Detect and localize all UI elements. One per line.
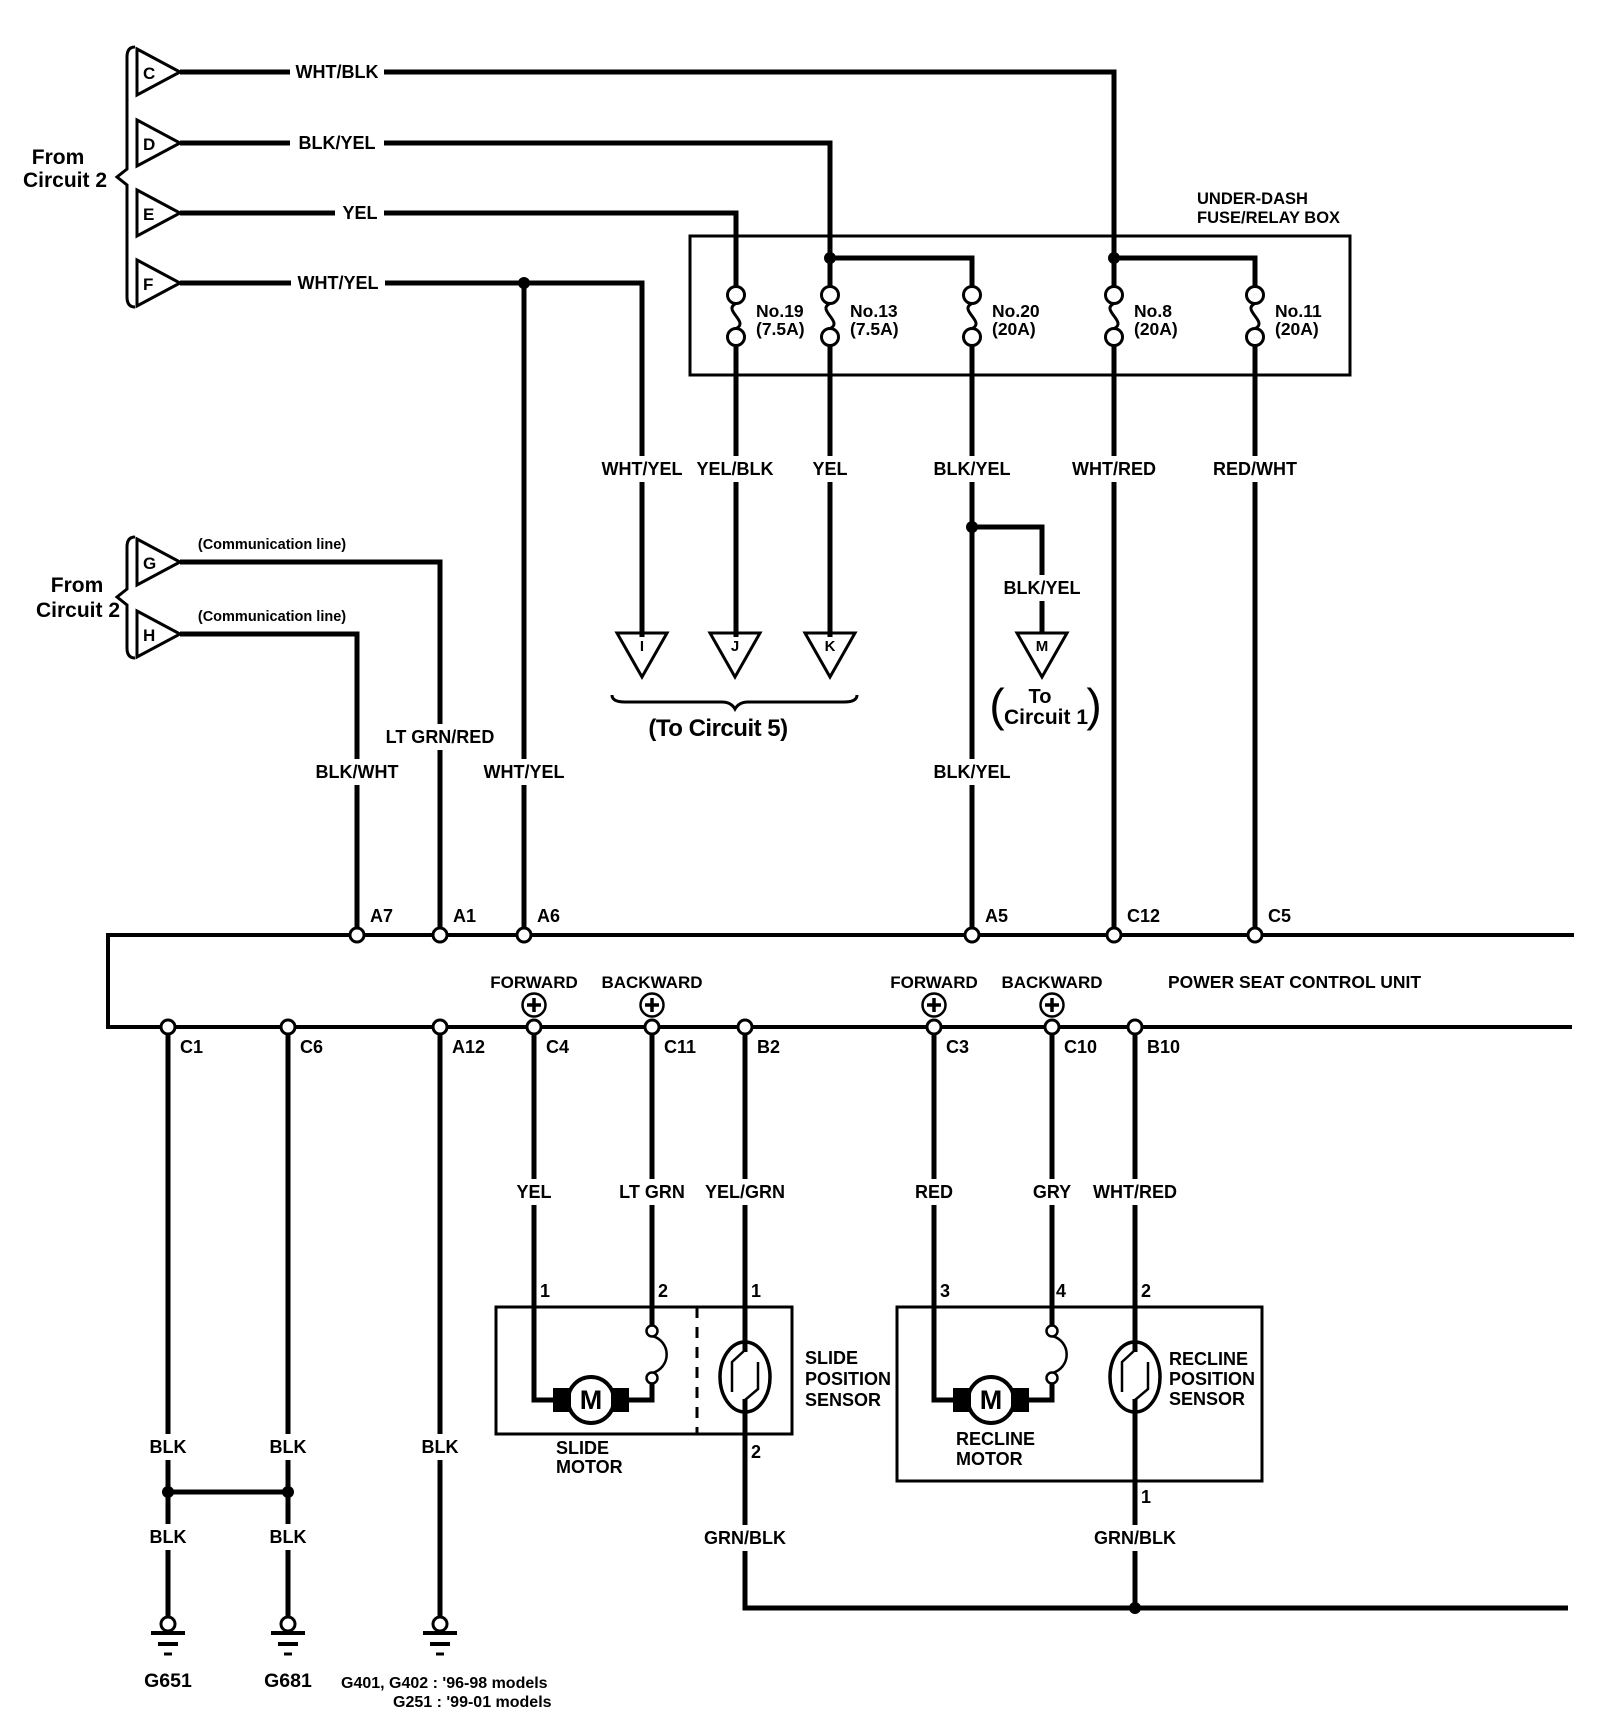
label BLK column C6 upper xyxy=(263,1434,312,1460)
svg-text:I: I xyxy=(640,638,644,655)
svg-text:C4: C4 xyxy=(546,1037,569,1057)
terminal A6 xyxy=(517,928,531,942)
svg-text:(20A): (20A) xyxy=(1134,319,1178,339)
svg-text:E: E xyxy=(143,205,154,224)
label YEL column K xyxy=(805,456,854,482)
svg-text:(7.5A): (7.5A) xyxy=(756,319,805,339)
wire WHT/BLK from C to fuse No.8 xyxy=(180,72,1114,287)
terminal C6 xyxy=(281,1020,295,1034)
label GRN/BLK slide sensor xyxy=(698,1525,792,1551)
fuse No.19 (7.5A) xyxy=(728,287,745,304)
svg-text:WHT/YEL: WHT/YEL xyxy=(484,762,565,782)
wire branch BLK/YEL to arrow M xyxy=(972,527,1042,634)
wire slide sensor GRN/BLK to bottom rail xyxy=(745,1399,1568,1608)
svg-text:1: 1 xyxy=(540,1281,550,1301)
svg-text:MOTOR: MOTOR xyxy=(556,1457,623,1477)
svg-text:BLK: BLK xyxy=(270,1437,307,1457)
svg-text:A7: A7 xyxy=(370,906,393,926)
label LT GRN/RED column A1 xyxy=(376,724,504,750)
svg-text:D: D xyxy=(143,135,155,154)
slide box dashed divider xyxy=(696,1307,699,1434)
wire slide motor to breaker xyxy=(629,1383,652,1400)
svg-text:BACKWARD: BACKWARD xyxy=(1001,973,1102,992)
svg-text:GRN/BLK: GRN/BLK xyxy=(704,1528,786,1548)
svg-text:BLK/YEL: BLK/YEL xyxy=(298,133,375,153)
svg-text:FORWARD: FORWARD xyxy=(490,973,578,992)
label RED/WHT column C5 xyxy=(1208,456,1302,482)
junction BLK C6 xyxy=(282,1486,294,1498)
label WHT/RED column B10 xyxy=(1088,1179,1182,1205)
svg-text:G: G xyxy=(143,554,156,573)
svg-text:(Communication line): (Communication line) xyxy=(198,609,346,625)
svg-text:RED/WHT: RED/WHT xyxy=(1213,459,1297,479)
slide motor breaker contact xyxy=(652,1336,667,1373)
svg-text:Circuit 2: Circuit 2 xyxy=(36,599,120,622)
terminal C10 xyxy=(1045,1020,1059,1034)
label YEL/GRN column B2 xyxy=(698,1179,792,1205)
label WHT/YEL column A6 xyxy=(477,759,571,785)
wire fuse box jumper No.8 to No.11 xyxy=(1114,258,1255,287)
svg-text:B2: B2 xyxy=(757,1037,780,1057)
svg-text:F: F xyxy=(143,275,153,294)
svg-text:C6: C6 xyxy=(300,1037,323,1057)
svg-text:BLK/YEL: BLK/YEL xyxy=(1003,578,1080,598)
svg-text:No.20: No.20 xyxy=(992,301,1040,321)
svg-text:B10: B10 xyxy=(1147,1037,1180,1057)
svg-text:BLK/YEL: BLK/YEL xyxy=(933,459,1010,479)
svg-text:SENSOR: SENSOR xyxy=(805,1390,881,1410)
terminal C1 xyxy=(161,1020,175,1034)
svg-text:M: M xyxy=(1036,638,1049,655)
label GRN/BLK recline sensor xyxy=(1088,1525,1182,1551)
wire C1 to ground G651 xyxy=(166,1034,171,1617)
svg-text:BACKWARD: BACKWARD xyxy=(601,973,702,992)
svg-text:YEL: YEL xyxy=(516,1182,551,1202)
svg-text:(20A): (20A) xyxy=(1275,319,1319,339)
svg-text:BLK: BLK xyxy=(422,1437,459,1457)
wire recline motor to breaker xyxy=(1029,1383,1052,1400)
fuse No.11 (20A) xyxy=(1247,287,1264,304)
label BLK column C6 lower xyxy=(263,1524,312,1550)
svg-text:C12: C12 xyxy=(1127,906,1160,926)
wire recline sensor GRN/BLK to bottom rail xyxy=(1133,1399,1138,1608)
wire H communication line to A7 xyxy=(180,634,357,928)
svg-text:FUSE/RELAY BOX: FUSE/RELAY BOX xyxy=(1197,209,1340,227)
wire branch WHT/YEL to A6 xyxy=(522,283,527,928)
wire fuse No.19 to arrow J xyxy=(734,345,739,637)
svg-text:MOTOR: MOTOR xyxy=(956,1449,1023,1469)
svg-text:C3: C3 xyxy=(946,1037,969,1057)
wire C10 GRY to recline breaker xyxy=(1050,1034,1055,1326)
label BLK/YEL column A5 xyxy=(925,456,1019,482)
power seat control unit outline xyxy=(108,935,1574,1027)
svg-text:M: M xyxy=(980,1385,1003,1415)
connector H from circuit 2 xyxy=(137,611,180,657)
svg-text:POSITION: POSITION xyxy=(805,1369,891,1389)
brace From Circuit 2 (G-H) xyxy=(117,537,135,658)
label BLK/YEL on M branch xyxy=(995,575,1089,601)
svg-text:M: M xyxy=(580,1385,603,1415)
svg-text:No.13: No.13 xyxy=(850,301,898,321)
recline motor / sensor box xyxy=(897,1307,1262,1481)
junction GRN/BLK bottom rail xyxy=(1129,1602,1141,1614)
connector D from circuit 2 xyxy=(137,120,180,166)
terminal C11 xyxy=(645,1020,659,1034)
label BLK column A12 xyxy=(415,1434,464,1460)
svg-text:UNDER-DASH: UNDER-DASH xyxy=(1197,190,1308,208)
ground G651 xyxy=(161,1617,175,1631)
svg-text:C11: C11 xyxy=(664,1037,696,1057)
terminal B2 xyxy=(738,1020,752,1034)
svg-text:J: J xyxy=(731,638,739,655)
svg-text:YEL/BLK: YEL/BLK xyxy=(696,459,773,479)
svg-text:A12: A12 xyxy=(452,1037,485,1057)
svg-text:BLK/YEL: BLK/YEL xyxy=(933,762,1010,782)
backward symbol C11 xyxy=(641,994,664,1017)
wire fuse No.20 BLK/YEL to A5 xyxy=(970,345,975,928)
under-dash fuse/relay box outline xyxy=(690,236,1350,375)
svg-text:1: 1 xyxy=(1141,1487,1151,1507)
svg-text:SLIDE: SLIDE xyxy=(556,1438,609,1458)
svg-text:G251 : '99-01 models: G251 : '99-01 models xyxy=(393,1694,552,1711)
label WHT/BLK on wire C xyxy=(290,59,384,85)
label WHT/RED column C12 xyxy=(1067,456,1161,482)
terminal C5 xyxy=(1248,928,1262,942)
fuse No.13 (7.5A) xyxy=(822,287,839,304)
svg-text:C5: C5 xyxy=(1268,906,1291,926)
wire B2 YEL/GRN to slide sensor xyxy=(743,1034,748,1352)
wire fuse No.11 RED/WHT to C5 xyxy=(1253,345,1258,928)
svg-text:): ) xyxy=(1086,679,1101,731)
label BLK column C1 upper xyxy=(143,1434,192,1460)
label YEL column C4 xyxy=(509,1179,558,1205)
svg-text:YEL: YEL xyxy=(342,203,377,223)
recline position sensor oval xyxy=(1110,1342,1160,1412)
terminal A12 xyxy=(433,1020,447,1034)
wire fuse No.13 to arrow K xyxy=(828,345,833,637)
terminal A1 xyxy=(433,928,447,942)
wire WHT/YEL from F xyxy=(180,283,642,637)
svg-text:WHT/YEL: WHT/YEL xyxy=(298,273,379,293)
svg-text:A5: A5 xyxy=(985,906,1008,926)
svg-text:RECLINE: RECLINE xyxy=(1169,1349,1248,1369)
connector E from circuit 2 xyxy=(137,190,180,236)
junction BLK C1 xyxy=(162,1486,174,1498)
connector F from circuit 2 xyxy=(137,260,180,306)
label BLK/YEL on wire D xyxy=(290,130,384,156)
svg-text:BLK: BLK xyxy=(270,1527,307,1547)
label WHT/YEL column I xyxy=(595,456,689,482)
svg-text:2: 2 xyxy=(1141,1281,1151,1301)
brace To Circuit 5 xyxy=(612,695,857,709)
wire BLK jumper C1-C6 xyxy=(168,1490,288,1495)
svg-text:WHT/BLK: WHT/BLK xyxy=(296,62,379,82)
svg-text:POSITION: POSITION xyxy=(1169,1369,1255,1389)
brace From Circuit 2 (C-F) xyxy=(117,47,135,307)
svg-text:SLIDE: SLIDE xyxy=(805,1348,858,1368)
arrow connector M xyxy=(1017,633,1067,677)
svg-text:BLK: BLK xyxy=(150,1527,187,1547)
svg-text:To: To xyxy=(1029,686,1052,708)
svg-text:K: K xyxy=(825,638,836,655)
wire C4 YEL to slide motor xyxy=(534,1034,553,1400)
svg-text:H: H xyxy=(143,626,155,645)
label WHT/YEL on wire F xyxy=(291,270,385,296)
label YEL on wire E xyxy=(335,200,384,226)
arrow connector I xyxy=(617,633,667,677)
svg-text:C: C xyxy=(143,64,155,83)
terminal A5 xyxy=(965,928,979,942)
svg-text:(To Circuit 5): (To Circuit 5) xyxy=(648,715,787,742)
recline motor breaker contact xyxy=(1052,1336,1067,1373)
svg-text:YEL/GRN: YEL/GRN xyxy=(705,1182,785,1202)
svg-text:FORWARD: FORWARD xyxy=(890,973,978,992)
label BLK column C1 lower xyxy=(143,1524,192,1550)
svg-text:2: 2 xyxy=(751,1442,761,1462)
label GRY column C10 xyxy=(1027,1179,1076,1205)
svg-text:C1: C1 xyxy=(180,1037,203,1057)
wire A12 to ground G401 xyxy=(438,1034,443,1617)
svg-text:(Communication line): (Communication line) xyxy=(198,537,346,553)
backward symbol C10 xyxy=(1041,994,1064,1017)
wire fuse No.8 WHT/RED to C12 xyxy=(1112,345,1117,928)
svg-text:No.19: No.19 xyxy=(756,301,804,321)
wire YEL from E to fuse No.19 xyxy=(180,213,736,287)
svg-text:(7.5A): (7.5A) xyxy=(850,319,899,339)
junction C/WHT-BLK in fuse box xyxy=(1108,252,1120,264)
junction BLK/YEL to arrow M xyxy=(966,521,978,533)
svg-text:YEL: YEL xyxy=(812,459,847,479)
svg-text:BLK: BLK xyxy=(150,1437,187,1457)
svg-text:No.8: No.8 xyxy=(1134,301,1172,321)
svg-text:WHT/YEL: WHT/YEL xyxy=(602,459,683,479)
svg-text:A1: A1 xyxy=(453,906,476,926)
svg-text:No.11: No.11 xyxy=(1275,301,1322,321)
terminal A7 xyxy=(350,928,364,942)
slide position sensor oval xyxy=(720,1342,770,1412)
svg-text:G651: G651 xyxy=(144,1670,192,1692)
svg-text:3: 3 xyxy=(940,1281,950,1301)
svg-text:1: 1 xyxy=(751,1281,761,1301)
label BLK/YEL lower column A5 xyxy=(925,759,1019,785)
forward symbol C4 xyxy=(523,994,546,1017)
wire G communication line to A1 xyxy=(180,562,440,928)
terminal C12 xyxy=(1107,928,1121,942)
svg-text:A6: A6 xyxy=(537,906,560,926)
junction D/BLK-YEL in fuse box xyxy=(824,252,836,264)
wire BLK/YEL from D to fuse No.13 xyxy=(180,143,830,287)
wire C11 LT GRN to slide breaker xyxy=(650,1034,655,1326)
svg-text:LT GRN/RED: LT GRN/RED xyxy=(386,727,495,747)
junction F/WHT-YEL split xyxy=(518,277,530,289)
terminal B10 xyxy=(1128,1020,1142,1034)
ground G401/G402/G251 xyxy=(433,1617,447,1631)
label BLK/WHT column A7 xyxy=(310,759,404,785)
connector G from circuit 2 xyxy=(137,539,180,585)
svg-text:RED: RED xyxy=(915,1182,953,1202)
label YEL/BLK column J xyxy=(688,456,782,482)
fuse No.8 (20A) xyxy=(1106,287,1123,304)
fuse No.20 (20A) xyxy=(964,287,981,304)
svg-text:POWER SEAT CONTROL UNIT: POWER SEAT CONTROL UNIT xyxy=(1168,972,1421,992)
svg-text:G401, G402 : '96-98 models: G401, G402 : '96-98 models xyxy=(341,1675,548,1692)
svg-text:2: 2 xyxy=(658,1281,668,1301)
svg-text:From: From xyxy=(32,146,85,169)
svg-text:BLK/WHT: BLK/WHT xyxy=(316,762,399,782)
svg-text:GRY: GRY xyxy=(1033,1182,1071,1202)
forward symbol C3 xyxy=(923,994,946,1017)
connector C from circuit 2 xyxy=(137,49,180,95)
svg-text:WHT/RED: WHT/RED xyxy=(1093,1182,1177,1202)
svg-text:(: ( xyxy=(989,679,1005,731)
recline sensor wiper symbol xyxy=(1122,1350,1148,1400)
svg-text:GRN/BLK: GRN/BLK xyxy=(1094,1528,1176,1548)
slide motor / sensor box xyxy=(496,1307,792,1434)
svg-text:C10: C10 xyxy=(1064,1037,1097,1057)
terminal C3 xyxy=(927,1020,941,1034)
arrow connector K xyxy=(805,633,855,677)
terminal C4 xyxy=(527,1020,541,1034)
label LT GRN column C11 xyxy=(611,1179,694,1205)
arrow connector J xyxy=(710,633,760,677)
svg-text:From: From xyxy=(51,574,104,597)
wire C3 RED to recline motor xyxy=(934,1034,953,1400)
wire B10 WHT/RED to recline sensor xyxy=(1133,1034,1138,1352)
svg-text:(20A): (20A) xyxy=(992,319,1036,339)
slide motor M symbol xyxy=(568,1377,614,1423)
wire fuse box jumper No.13 to No.20 xyxy=(830,258,972,287)
wire C6 to ground G681 xyxy=(286,1034,291,1617)
svg-text:Circuit 2: Circuit 2 xyxy=(23,169,107,192)
recline motor M symbol xyxy=(968,1377,1014,1423)
svg-text:LT GRN: LT GRN xyxy=(619,1182,685,1202)
svg-text:4: 4 xyxy=(1056,1281,1066,1301)
label RED column C3 xyxy=(909,1179,958,1205)
svg-text:WHT/RED: WHT/RED xyxy=(1072,459,1156,479)
svg-text:SENSOR: SENSOR xyxy=(1169,1389,1245,1409)
svg-text:Circuit 1: Circuit 1 xyxy=(1004,706,1088,729)
svg-text:G681: G681 xyxy=(264,1670,312,1692)
ground G681 xyxy=(281,1617,295,1631)
slide sensor wiper symbol xyxy=(732,1350,758,1400)
svg-text:RECLINE: RECLINE xyxy=(956,1429,1035,1449)
